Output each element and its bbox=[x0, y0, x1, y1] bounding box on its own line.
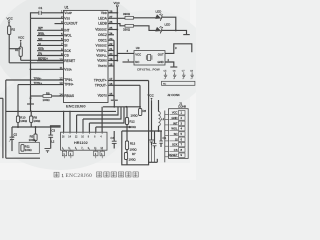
svg-text:VSSA: VSSA bbox=[64, 67, 72, 71]
svg-text:100Ω: 100Ω bbox=[34, 119, 41, 123]
svg-text:NC: NC bbox=[163, 83, 167, 85]
svg-text:100Ω: 100Ω bbox=[25, 148, 32, 152]
svg-text:C3: C3 bbox=[52, 129, 56, 133]
svg-text:100Ω: 100Ω bbox=[43, 98, 51, 102]
svg-text:VDD: VDD bbox=[101, 11, 107, 15]
svg-text:VSSTX: VSSTX bbox=[98, 64, 107, 68]
svg-text:TPOUT-: TPOUT- bbox=[95, 83, 107, 87]
svg-text:L2: L2 bbox=[51, 140, 55, 144]
svg-text:VDDTX: VDDTX bbox=[98, 94, 108, 98]
svg-text:U3: U3 bbox=[136, 46, 140, 50]
svg-text:VDDPLL: VDDPLL bbox=[96, 54, 107, 58]
svg-text:GND: GND bbox=[157, 60, 163, 64]
svg-text:SI: SI bbox=[38, 42, 41, 46]
svg-text:LED: LED bbox=[156, 10, 163, 14]
svg-text:OSC2: OSC2 bbox=[98, 33, 107, 37]
svg-text:RESET: RESET bbox=[64, 59, 75, 63]
svg-text:ENC28J60: ENC28J60 bbox=[66, 173, 93, 179]
svg-text:VSSPLL: VSSPLL bbox=[97, 49, 108, 53]
svg-text:100Ω: 100Ω bbox=[129, 157, 137, 161]
svg-text:HR1102: HR1102 bbox=[74, 141, 88, 145]
svg-text:J2 CON4: J2 CON4 bbox=[167, 93, 180, 97]
svg-text:VSS: VSS bbox=[64, 16, 70, 20]
svg-text:VDDOSC: VDDOSC bbox=[95, 28, 107, 32]
svg-text:INT: INT bbox=[64, 28, 69, 32]
svg-text:RBIAS: RBIAS bbox=[64, 94, 75, 98]
svg-text:VCAP: VCAP bbox=[64, 11, 72, 15]
svg-text:SCK: SCK bbox=[64, 49, 72, 53]
svg-text:CLKOUT: CLKOUT bbox=[64, 22, 77, 26]
svg-text:SI: SI bbox=[64, 44, 67, 48]
svg-text:OSC1: OSC1 bbox=[98, 38, 107, 42]
svg-text:R13: R13 bbox=[130, 142, 136, 146]
svg-text:VCC: VCC bbox=[114, 1, 121, 5]
svg-text:R6: R6 bbox=[143, 109, 147, 113]
svg-text:U1: U1 bbox=[65, 6, 69, 10]
svg-text:R12: R12 bbox=[130, 119, 136, 123]
svg-text:CRYSTAL_POW: CRYSTAL_POW bbox=[137, 68, 160, 72]
svg-text:SO: SO bbox=[64, 39, 69, 43]
svg-text:SO: SO bbox=[38, 37, 43, 41]
svg-text:R7: R7 bbox=[132, 152, 136, 156]
svg-text:OUT: OUT bbox=[158, 52, 164, 56]
svg-text:ENC28J60: ENC28J60 bbox=[66, 103, 86, 108]
svg-text:NC: NC bbox=[135, 60, 139, 64]
svg-text:VSSOSC: VSSOSC bbox=[96, 44, 107, 48]
svg-text:TPIN-: TPIN- bbox=[64, 78, 73, 82]
svg-text:C1: C1 bbox=[39, 6, 43, 10]
svg-text:100Ω: 100Ω bbox=[131, 114, 139, 118]
svg-text:R1: R1 bbox=[15, 48, 19, 52]
svg-text:100Ω: 100Ω bbox=[29, 138, 36, 142]
svg-text:WOL: WOL bbox=[64, 34, 72, 38]
svg-text:LEDB: LEDB bbox=[98, 22, 107, 26]
svg-text:VCC: VCC bbox=[7, 17, 14, 21]
svg-text:TPIN+: TPIN+ bbox=[64, 83, 73, 87]
svg-text:330Ω: 330Ω bbox=[123, 27, 131, 31]
svg-text:CON9: CON9 bbox=[178, 105, 186, 109]
svg-text:R2: R2 bbox=[12, 28, 16, 32]
svg-text:100Ω: 100Ω bbox=[20, 119, 27, 123]
svg-text:VCC: VCC bbox=[18, 36, 25, 40]
svg-text:LED: LED bbox=[165, 22, 172, 26]
svg-text:330Ω: 330Ω bbox=[123, 12, 131, 16]
svg-text:100Ω: 100Ω bbox=[130, 147, 138, 151]
svg-text:R8: R8 bbox=[46, 91, 50, 95]
svg-text:TPOUT+: TPOUT+ bbox=[94, 79, 107, 83]
svg-text:L1: L1 bbox=[161, 117, 165, 121]
svg-text:VDDRX: VDDRX bbox=[97, 59, 107, 63]
svg-text:VCC: VCC bbox=[135, 52, 141, 56]
svg-text:LEDA: LEDA bbox=[98, 16, 107, 20]
